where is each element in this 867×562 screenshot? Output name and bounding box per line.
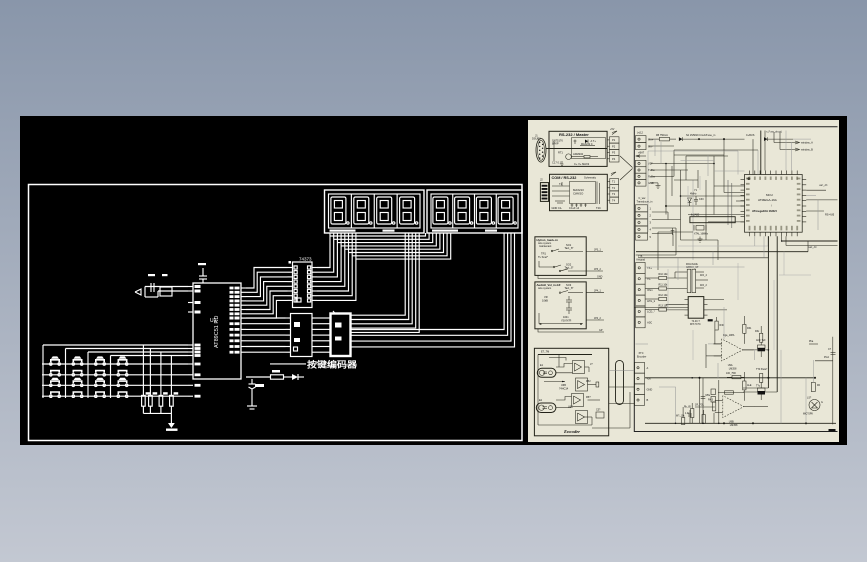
analog switch U8 74HC4053 — [666, 297, 727, 327]
svg-text:Transducer_in: Transducer_in — [637, 200, 653, 203]
svg-text:LPG_k: LPG_k — [647, 299, 656, 303]
right edge vertical with cap — [809, 337, 836, 432]
svg-text:FB 750mA: FB 750mA — [656, 134, 668, 137]
svg-text:MCU: MCU — [766, 193, 773, 197]
svg-text:B: B — [647, 398, 649, 402]
wire bus: MCU P2 port to driver U3 — [246, 318, 286, 352]
svg-text:C5?: C5? — [596, 409, 601, 412]
main schematic frame — [634, 127, 837, 432]
resistors R10-R13 — [645, 273, 668, 311]
svg-text:T?0 Pana*: T?0 Pana* — [756, 368, 767, 371]
svg-text:Tx-: Tx- — [647, 277, 651, 281]
wire mesh density — [634, 142, 837, 423]
rotary encoder ENC2 — [536, 399, 556, 413]
svg-text:Y5V/X7R: Y5V/X7R — [561, 320, 571, 323]
svg-text:G: G — [821, 401, 823, 404]
connector J1 DB9 — [532, 134, 546, 163]
svg-text:GP: GP — [599, 329, 603, 332]
svg-text:window_B: window_B — [801, 148, 813, 152]
svg-text:R52: R52 — [586, 380, 591, 383]
wire bus: digit select lines module DS2 to driver block — [351, 233, 515, 347]
svg-text:E2: E2 — [539, 399, 543, 402]
svg-text:JP4_1: JP4_1 — [594, 290, 601, 293]
svg-text:LS?: LS? — [807, 397, 812, 400]
svg-text:VR: VR — [544, 295, 548, 299]
svg-text:CWI/SO: CWI/SO — [573, 192, 584, 196]
svg-text:T2C: T2C — [596, 206, 601, 210]
svg-text:MIC*SPK: MIC*SPK — [803, 413, 814, 416]
svg-text:JP3_2: JP3_2 — [594, 268, 601, 271]
svg-text:R11 10k: R11 10k — [659, 284, 669, 287]
svg-text:P2: P2 — [612, 144, 616, 148]
wire: converge to main — [620, 156, 633, 180]
svg-text:S2 1N5819 0.1uF/Fuse_m: S2 1N5819 0.1uF/Fuse_m — [686, 134, 715, 137]
svg-text:A0C: A0C — [647, 321, 652, 325]
ground symbol below resistors — [166, 413, 178, 431]
svg-text:TL Snel*: TL Snel* — [538, 255, 548, 259]
svg-text:R31: R31 — [747, 327, 752, 330]
svg-text:P3: P3 — [612, 151, 616, 155]
svg-text:JP3_1: JP3_1 — [594, 249, 601, 252]
svg-text:GND: GND — [647, 387, 653, 391]
sub-circuit block: Encoder — [534, 348, 608, 436]
svg-text:4MHz: 4MHz — [690, 193, 697, 196]
svg-text:Vin-: Vin- — [648, 144, 653, 148]
svg-text:DSUB9: DSUB9 — [532, 137, 541, 141]
schmitt buffers U6 — [559, 361, 593, 424]
svg-text:R3x: R3x — [755, 330, 760, 333]
svg-text:ARRAY_9P: ARRAY_9P — [686, 266, 699, 269]
svg-text:T?u: T?u — [756, 385, 761, 388]
resistor R9 and diode D1 — [246, 370, 304, 380]
svg-text:T1: T1 — [612, 180, 616, 184]
connector CN2 serial — [636, 160, 656, 186]
svg-text:wire system: wire system — [538, 287, 551, 290]
svg-text:maintenant: maintenant — [539, 245, 552, 248]
svg-text:JP4_2: JP4_2 — [594, 317, 601, 320]
svg-text:R12 10k: R12 10k — [659, 294, 669, 297]
svg-text:C17 0.1: C17 0.1 — [552, 161, 562, 165]
svg-text:M?_10k: M?_10k — [676, 415, 685, 418]
fuse F1 — [648, 134, 676, 141]
display driver block U4 — [331, 311, 351, 356]
svg-text:Tact_S*: Tact_S* — [565, 286, 574, 290]
svg-text:BP/IP: BP/IP — [552, 141, 559, 145]
wire mesh center — [636, 156, 768, 270]
diode D2 — [679, 134, 745, 141]
sub-circuit block: audio volume — [535, 282, 586, 329]
svg-text:Encoder: Encoder — [563, 429, 580, 434]
wire bus: digit select lines module DS1 to driver block — [351, 233, 420, 332]
svg-text:RS-4.85: RS-4.85 — [825, 214, 835, 217]
crystal X1 with load capacitors C1 C2 — [135, 274, 188, 297]
svg-text:C?: C? — [828, 348, 832, 351]
svg-text:M?L?C?C: M?L?C?C — [690, 323, 701, 326]
connector J2 striped — [540, 178, 549, 202]
svg-text:ACF 7uF: ACF 7uF — [756, 339, 766, 342]
cable capsule — [616, 360, 624, 404]
svg-text:P4: P4 — [612, 157, 616, 161]
wire mesh density 5 — [655, 131, 811, 207]
net arrow Vout — [636, 152, 646, 158]
wire bus bottom — [645, 307, 836, 424]
svg-text:Encoder: Encoder — [637, 356, 646, 359]
svg-text:74373: 74373 — [299, 257, 312, 262]
sub-circuit block: COM RS-232 — [550, 174, 608, 210]
capacitor C4 and ground — [247, 379, 264, 409]
MCU U1 AT89C51 — [188, 283, 246, 398]
latch U2 74373 — [288, 257, 318, 308]
wire mesh density 3 — [638, 150, 774, 350]
svg-text:3: 3 — [650, 221, 652, 225]
svg-text:Rga_10PA: Rga_10PA — [723, 334, 735, 337]
crystal Y1 circuit — [688, 189, 736, 242]
drawing frame — [29, 185, 523, 441]
svg-text:Tact_S*: Tact_S* — [565, 266, 574, 270]
svg-text:4Fh_2: 4Fh_2 — [700, 284, 707, 287]
svg-text:4: 4 — [650, 228, 652, 232]
svg-text:按键编码器: 按键编码器 — [307, 360, 358, 370]
svg-text:Pba: Pba — [809, 340, 814, 343]
svg-text:ALE: ALE — [747, 384, 752, 387]
svg-text:Rb_85: Rb_85 — [684, 407, 691, 409]
svg-text:/: / — [771, 204, 772, 208]
svg-text:TX+: TX+ — [647, 266, 652, 270]
op-amp U9B — [715, 396, 755, 428]
wire bus main grid — [648, 131, 780, 261]
svg-text:C+BUS: C+BUS — [746, 134, 755, 137]
MCU U7 ATmega QFP — [741, 171, 807, 237]
wires from block D — [538, 290, 604, 332]
svg-text:GND C1-: GND C1- — [552, 206, 563, 210]
7-segment display module DS2 — [427, 190, 522, 233]
svg-text:1: 1 — [650, 207, 652, 211]
svg-text:Keypad: Keypad — [637, 259, 646, 262]
svg-text:ADM202: ADM202 — [573, 152, 584, 156]
svg-text:COM / RS-232: COM / RS-232 — [552, 176, 577, 180]
svg-text:E1: E1 — [540, 364, 544, 367]
svg-text:+5V: +5V — [610, 128, 615, 131]
relay K1 — [811, 360, 820, 392]
svg-text:R5?: R5? — [586, 396, 591, 399]
rotary encoder ENC1 — [537, 364, 556, 377]
wires encoder to connector — [592, 371, 635, 429]
svg-text:4Fh_4: 4Fh_4 — [700, 274, 707, 277]
keypad column wires to MCU port P1 — [43, 345, 188, 398]
reset capacitor C3 — [198, 263, 207, 283]
sub-circuit block: power load switch — [535, 237, 586, 276]
svg-text:2: 2 — [650, 214, 652, 218]
wires from block C — [538, 249, 603, 279]
svg-text:wait_A0: wait_A0 — [808, 246, 817, 249]
wire bus: U3 to U4 — [317, 318, 331, 352]
svg-text:XTAL 16MHz: XTAL 16MHz — [694, 233, 709, 236]
svg-text:T2: T2 — [612, 186, 616, 190]
connector JP1 header — [607, 128, 619, 162]
svg-text:M5u: M5u — [706, 394, 711, 397]
wires around MCU — [636, 131, 838, 393]
misc junction dots — [665, 138, 782, 378]
sub-circuit block: RS-232 Master — [546, 131, 607, 166]
svg-text:U6C: U6C — [568, 406, 573, 409]
buzzer BZ1 — [803, 397, 823, 416]
svg-text:TR1: TR1 — [541, 252, 546, 256]
svg-text:uart_A3: uart_A3 — [819, 184, 828, 187]
svg-text:n_Fuse_about|: n_Fuse_about| — [766, 131, 782, 134]
connector JP2 header — [607, 172, 618, 203]
svg-text:Schematic: Schematic — [584, 176, 597, 180]
encoder internal wires — [544, 355, 604, 426]
svg-text:C+ V+ MAX2: C+ V+ MAX2 — [574, 162, 590, 166]
svg-text:window_A: window_A — [801, 141, 813, 145]
resistor network RN1 — [667, 263, 708, 293]
svg-text:5: 5 — [650, 235, 652, 239]
svg-text:100_75R: 100_75R — [726, 372, 736, 375]
resistors R1 R2 R3 R4 — [142, 345, 179, 413]
svg-text:LM358: LM358 — [730, 424, 738, 427]
svg-text:+5v: +5v — [647, 377, 652, 381]
svg-text:MAX232 C: MAX232 C — [581, 143, 593, 146]
svg-text:LM358: LM358 — [729, 367, 737, 370]
svg-text:A: A — [647, 366, 649, 370]
svg-text:(+)12: (+)12 — [637, 132, 644, 135]
driver chip U3 — [286, 314, 318, 357]
svg-text:T4: T4 — [612, 198, 616, 202]
diode D3 on rail — [746, 134, 793, 141]
svg-text:74HC14: 74HC14 — [559, 387, 569, 390]
wire bus: MCU P0 port to latch U2 — [246, 268, 288, 319]
net label: keypad encoder (Chinese) — [270, 360, 358, 370]
wire bus: segment lines from 74373 to both display modules — [317, 233, 451, 300]
svg-text:PG4: PG4 — [824, 356, 829, 359]
svg-text:LCD_*: LCD_* — [647, 310, 655, 314]
svg-text:AT89C51 RD: AT89C51 RD — [214, 316, 220, 348]
svg-text:J2: J2 — [540, 178, 543, 182]
svg-text:Tact_S*: Tact_S* — [565, 246, 574, 250]
svg-text:ATmega16A 16/32 I: ATmega16A 16/32 I — [752, 209, 777, 213]
wire mesh density 4 — [659, 377, 744, 424]
svg-text:P1: P1 — [612, 138, 616, 142]
7-segment display module DS1 — [325, 190, 425, 233]
op-amp passives — [676, 321, 768, 424]
keypad row wires to MCU port P1 — [42, 364, 188, 396]
svg-text:RT1: RT1 — [558, 151, 563, 155]
svg-text:+BAT: +BAT — [638, 152, 645, 155]
svg-text:ET_TM: ET_TM — [541, 351, 549, 354]
svg-text:R10 10k: R10 10k — [659, 273, 669, 276]
svg-text:10kB: 10kB — [542, 299, 548, 303]
svg-text:ATMEGA-16A: ATMEGA-16A — [758, 198, 777, 202]
svg-text:0.1uF x4: 0.1uF x4 — [569, 206, 580, 210]
op-amp U9A — [714, 339, 754, 371]
svg-text:fix2AB2: fix2AB2 — [691, 214, 700, 217]
keypad 4x4 push buttons S1-S16 — [50, 356, 128, 397]
svg-text:RS-232 / Master: RS-232 / Master — [559, 132, 589, 137]
svg-text:T3: T3 — [612, 192, 616, 196]
svg-text:J?: J? — [590, 363, 593, 366]
svg-text:Rh: Rh — [817, 384, 821, 387]
serial out arrows — [774, 141, 813, 152]
svg-text:C30: C30 — [699, 198, 704, 201]
svg-text:GND: GND — [597, 276, 603, 279]
